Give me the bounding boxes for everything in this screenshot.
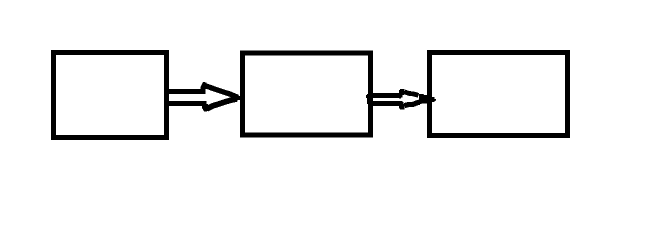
arrow 1 head bottom edge: [207, 99, 237, 109]
arrow 2 head bottom-back nub: [399, 105, 404, 110]
arrow 2 head back bottom wedge: [403, 102, 405, 105]
box 3: [430, 53, 568, 136]
arrow 2 head top edge: [405, 92, 419, 95]
arrow 2 nub at box2 border: [367, 94, 369, 104]
arrow 1 head top-back nub: [201, 82, 207, 89]
arrow 2 head bottom edge: [405, 102, 420, 105]
arrow 1 head bottom-back nub: [202, 104, 208, 112]
arrow 2 tip blob right of border: [432, 97, 436, 102]
arrow 1 tip junction: [237, 96, 241, 100]
arrow 2 shaft top: [369, 93, 399, 98]
arrow 1 shaft top: [164, 89, 206, 94]
arrow 2 tip mass: [419, 94, 427, 104]
arrow 2 shaft bottom: [369, 101, 403, 106]
arrow 1 shaft bottom: [164, 101, 207, 106]
arrow 2 head back edge: [399, 93, 404, 99]
box 2: [243, 53, 371, 135]
box 1: [54, 53, 167, 138]
arrow 1 head top edge: [205, 86, 238, 98]
arrow 2 head top-back nub: [399, 89, 404, 93]
